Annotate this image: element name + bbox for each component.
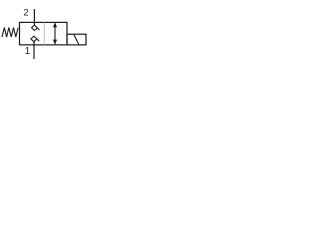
background [0, 0, 100, 69]
seat/poppet symbol lower (check valve) [31, 36, 39, 42]
seat/poppet symbol upper (check valve) [32, 25, 40, 30]
port 1 line [33, 42, 35, 59]
port 2 line [33, 9, 35, 25]
valve body (two position squares) [20, 22, 68, 44]
position divider [43, 22, 45, 44]
svg-text:1: 1 [25, 46, 30, 57]
svg-text:2: 2 [23, 8, 28, 19]
flow path arrow (open position, double headed) [53, 22, 57, 44]
solenoid box [67, 34, 86, 45]
spring (return spring, left side) [2, 28, 18, 38]
solenoid diagonal [74, 34, 79, 44]
